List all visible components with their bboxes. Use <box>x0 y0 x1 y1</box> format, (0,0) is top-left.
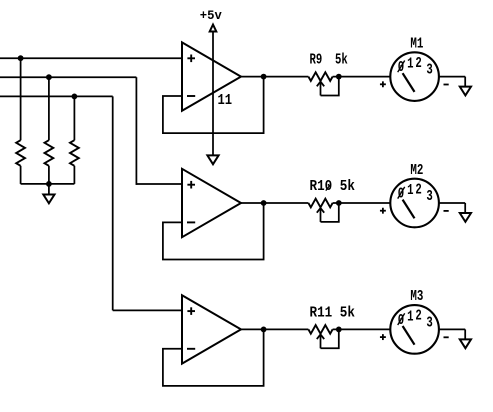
svg-text:R11 5k: R11 5k <box>310 305 356 321</box>
svg-text:2: 2 <box>415 182 421 198</box>
svg-text:1: 1 <box>407 57 414 73</box>
svg-text:3: 3 <box>426 63 432 79</box>
svg-text:M2: M2 <box>410 163 423 179</box>
svg-text:2: 2 <box>415 309 421 325</box>
svg-text:1: 1 <box>407 310 414 326</box>
svg-text:M3: M3 <box>410 289 423 305</box>
svg-text:+5v: +5v <box>200 8 222 23</box>
svg-text:3: 3 <box>426 189 432 205</box>
svg-text:1: 1 <box>407 183 414 199</box>
svg-text:2: 2 <box>415 56 421 72</box>
svg-text:11: 11 <box>218 93 233 109</box>
svg-text:3: 3 <box>426 316 432 332</box>
svg-text:R10 5k: R10 5k <box>310 179 356 195</box>
svg-text:R9 5k: R9 5k <box>310 53 348 69</box>
svg-text:M1: M1 <box>410 36 423 52</box>
